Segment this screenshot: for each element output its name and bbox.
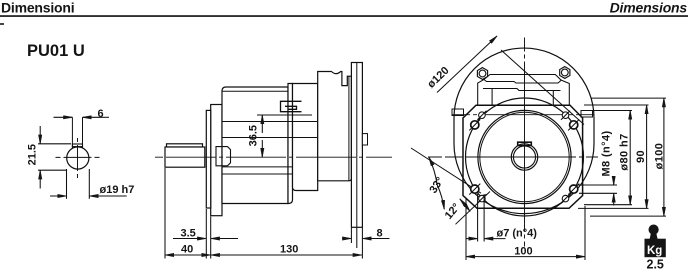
- svg-text:36.5: 36.5: [248, 125, 260, 146]
- svg-text:90: 90: [635, 150, 647, 163]
- svg-text:130: 130: [280, 243, 298, 255]
- svg-text:ø19 h7: ø19 h7: [100, 184, 135, 196]
- svg-text:ø80 h7: ø80 h7: [619, 133, 631, 170]
- svg-text:8: 8: [377, 228, 383, 240]
- svg-text:6: 6: [98, 108, 104, 120]
- svg-text:PU01 U: PU01 U: [27, 42, 85, 60]
- svg-text:40: 40: [181, 244, 193, 256]
- svg-text:M8 (n°4): M8 (n°4): [601, 130, 613, 176]
- svg-text:2.5: 2.5: [647, 258, 664, 272]
- svg-text:Dimensioni: Dimensioni: [1, 0, 74, 15]
- svg-text:Kg: Kg: [647, 245, 662, 257]
- svg-text:100: 100: [514, 246, 532, 258]
- svg-text:3.5: 3.5: [181, 227, 196, 239]
- svg-text:21.5: 21.5: [27, 144, 39, 165]
- svg-text:ø7 (n°4): ø7 (n°4): [497, 227, 538, 239]
- svg-text:Dimensions: Dimensions: [610, 0, 688, 15]
- svg-text:ø100: ø100: [654, 143, 666, 170]
